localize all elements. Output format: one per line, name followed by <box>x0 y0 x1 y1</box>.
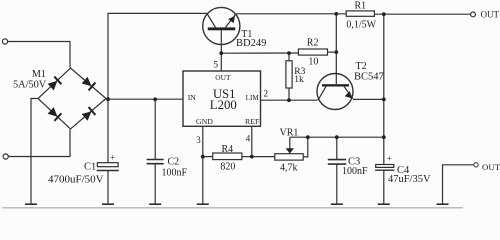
svg-text:IN: IN <box>188 93 197 102</box>
transistor T2 circle <box>317 74 353 110</box>
VR1 wiper stem <box>289 137 291 148</box>
junction T1 base / pin 5 node <box>219 51 223 55</box>
node bridge plus vertical <box>108 13 207 162</box>
wire pin2 LIM to T2 collector <box>261 99 318 101</box>
VR1 wiper arrowhead <box>286 148 294 153</box>
svg-text:1k: 1k <box>294 75 304 85</box>
T1 emitter line <box>226 14 237 28</box>
svg-text:VR1: VR1 <box>280 128 299 139</box>
capacitor C4 plates <box>375 165 394 171</box>
junction R1 right / output node <box>382 12 386 16</box>
R3 leads <box>288 53 290 61</box>
junction C3 tap on wiper line <box>335 135 339 139</box>
junction R3 top tap <box>287 51 291 55</box>
T2 collector line <box>318 86 326 100</box>
R4 leads <box>203 156 213 158</box>
ground L200 pin 3 <box>197 203 209 205</box>
ground bus shadow line <box>2 207 463 209</box>
junction bridge plus / IN line <box>106 97 110 101</box>
junction T2 emitter / output vertical <box>382 98 386 102</box>
ground bridge minus <box>25 203 37 205</box>
terminal AC input bottom <box>3 154 8 159</box>
svg-text:4700uF/50V: 4700uF/50V <box>48 174 104 186</box>
junction GND line / R4 left <box>201 155 205 159</box>
capacitor C3 leads <box>336 137 338 159</box>
svg-text:REF: REF <box>245 117 260 126</box>
resistor R4 body <box>213 153 242 160</box>
svg-text:4,7k: 4,7k <box>280 163 298 174</box>
R2 right lead <box>328 51 337 53</box>
wire top rail T1 emitter to R1 <box>236 13 347 15</box>
capacitor C1 lower lead <box>107 171 109 204</box>
svg-text:OUT: OUT <box>215 73 231 82</box>
wire REF node to VR1 <box>252 156 275 158</box>
junction rail / T2 base vertical <box>334 12 338 16</box>
T2 emitter arrowhead <box>345 91 353 98</box>
ground C3 <box>331 203 343 205</box>
wire output vertical <box>383 14 385 164</box>
ground C4 <box>378 203 390 205</box>
diode D2 top-right <box>81 76 95 90</box>
svg-text:BD249: BD249 <box>236 38 266 49</box>
IC pin names <box>188 73 260 126</box>
svg-text:10: 10 <box>308 56 318 67</box>
T2 base bar <box>322 84 349 86</box>
wire pin5 OUT <box>220 53 222 71</box>
diode D1 top-left <box>47 76 95 121</box>
svg-text:5A/50V: 5A/50V <box>13 80 47 91</box>
ground C2 <box>149 203 161 205</box>
ground C1 <box>102 203 114 205</box>
junction REF pin / R4 right / VR1 <box>250 155 254 159</box>
terminal OUT minus <box>474 163 478 167</box>
svg-text:C1: C1 <box>84 161 96 172</box>
T1 emitter arrowhead <box>228 16 235 23</box>
diode D4 bottom-right <box>81 107 95 121</box>
svg-text:2: 2 <box>264 89 269 99</box>
junction C2 tap on IN line <box>153 97 157 101</box>
svg-text:LIM: LIM <box>246 94 260 102</box>
junction R3 bottom / LIM line <box>287 98 291 102</box>
T1 collector line <box>207 14 215 27</box>
wire pin3 GND down <box>202 126 204 203</box>
potentiometer VR1 body <box>275 154 303 160</box>
junction R2 right / T2 base vertical <box>334 50 338 54</box>
VR1 right lead up <box>303 137 308 157</box>
op-amp US1 L200 box <box>183 71 261 126</box>
wire rail to T2 base vertical <box>335 14 337 84</box>
ground OUT minus <box>437 203 449 205</box>
svg-text:5: 5 <box>214 59 219 69</box>
capacitor C1 plates <box>97 163 119 171</box>
wire wiper line to output vertical <box>290 136 384 138</box>
wire AC1 to bridge top <box>8 42 70 68</box>
svg-text:OUT: OUT <box>481 9 500 19</box>
capacitor C2 branch <box>154 99 156 159</box>
transistor T1 circle <box>203 7 240 44</box>
svg-text:BC547: BC547 <box>354 71 384 82</box>
svg-text:100nF: 100nF <box>342 166 368 177</box>
resistor R3 body <box>286 61 292 88</box>
wire bridge minus to ground <box>31 99 38 204</box>
svg-text:100nF: 100nF <box>162 167 188 178</box>
diode D3 bottom-left <box>47 107 61 121</box>
resistor R2 body <box>298 49 327 55</box>
capacitor C4 lower lead <box>383 170 385 203</box>
svg-text:4: 4 <box>246 134 251 144</box>
svg-text:GND: GND <box>196 117 213 126</box>
terminal OUT plus <box>471 12 476 17</box>
wire AC2 to bridge bottom <box>8 130 70 157</box>
bridge rectifier M1 diamond <box>38 68 106 129</box>
svg-text:M1: M1 <box>32 69 46 80</box>
svg-text:+: + <box>387 154 392 164</box>
svg-text:R1: R1 <box>355 0 367 11</box>
wire IN line bridge to L200 <box>108 98 183 100</box>
svg-text:+: + <box>110 152 115 162</box>
svg-text:L200: L200 <box>210 98 237 112</box>
svg-text:R2: R2 <box>307 37 319 48</box>
wire T1 base line to R2 <box>221 52 298 54</box>
resistor R1 body <box>346 11 374 16</box>
junction wiper line / output vertical <box>382 135 386 139</box>
T2 emitter line <box>344 86 353 98</box>
wire OUT minus terminal <box>443 165 475 204</box>
junction VR1 right lead / wiper line <box>306 135 310 139</box>
T2 emitter wire to output node <box>353 98 384 100</box>
svg-text:820: 820 <box>220 162 235 173</box>
svg-text:3: 3 <box>196 135 201 145</box>
T1 base wire to node <box>220 31 222 54</box>
T1 base bar <box>208 27 235 30</box>
svg-text:R4: R4 <box>222 144 234 155</box>
svg-text:C2: C2 <box>168 156 180 167</box>
svg-text:47uF/35V: 47uF/35V <box>388 174 431 185</box>
svg-text:OUT: OUT <box>482 162 500 172</box>
capacitor C2 plates <box>147 160 164 164</box>
wire pin4 REF down <box>251 126 253 156</box>
terminal AC input top <box>2 39 7 44</box>
svg-text:0,1/5W: 0,1/5W <box>346 20 376 31</box>
capacitor C3 plates <box>328 160 346 165</box>
wire R1 to out terminal <box>374 13 470 15</box>
